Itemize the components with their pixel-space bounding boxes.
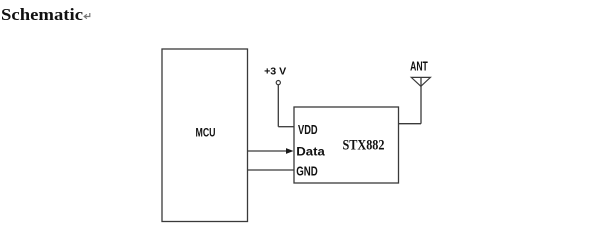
module STX882 [294, 107, 399, 183]
svg-text:MCU: MCU [196, 126, 216, 140]
wire ANT horizontal [399, 123, 422, 125]
svg-text:Data: Data [296, 145, 325, 159]
svg-text:STX882: STX882 [343, 137, 385, 153]
power terminal +3V (open circle) [276, 81, 280, 85]
paragraph return mark [84, 13, 90, 19]
block MCU [162, 49, 248, 222]
svg-text:VDD: VDD [298, 123, 318, 137]
svg-text:GND: GND [296, 164, 318, 178]
svg-text:+3 V: +3 V [264, 66, 286, 78]
arrowhead Data [286, 148, 294, 154]
wire VDD horizontal [278, 126, 294, 128]
wire GND [248, 169, 295, 171]
wire ANT vertical [420, 77, 422, 123]
wire Data [248, 150, 288, 152]
wire +3V vertical drop [277, 85, 279, 127]
svg-text:Schematic: Schematic [1, 5, 83, 24]
antenna ANT symbol [411, 77, 430, 86]
svg-text:ANT: ANT [410, 59, 428, 73]
